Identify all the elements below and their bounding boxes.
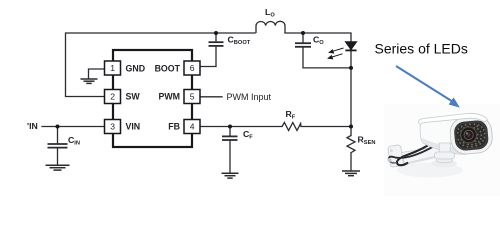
pin 1 box: [105, 61, 121, 75]
annotation blue arrow: [396, 66, 459, 107]
wire Rf right lead: [301, 126, 351, 128]
camera body shading: [422, 138, 465, 154]
wire VIN input: [42, 126, 105, 128]
svg-text:'IN: 'IN: [27, 121, 38, 131]
svg-text:6: 6: [190, 63, 195, 73]
svg-text:FB: FB: [168, 122, 180, 132]
wire Cin branch: [57, 127, 59, 144]
wire Co tap from rail: [302, 33, 304, 43]
pin 5 box: [184, 90, 200, 104]
ground at Cf: [222, 173, 239, 178]
wire inductor right to LED corner: [285, 33, 351, 42]
pin 6 box: [184, 61, 200, 75]
node Cf junction: [228, 125, 232, 129]
node Rsen junction: [349, 125, 353, 129]
ground at Rsen: [342, 171, 360, 176]
camera base: [435, 152, 455, 159]
wire FB pin to Rf: [200, 126, 282, 128]
camera arm: [402, 147, 442, 164]
wire BOOT pin to Cboot: [200, 46, 216, 66]
wire Rsen bottom to ground: [350, 153, 352, 171]
svg-text:BOOT: BOOT: [155, 63, 181, 73]
wire Cf branch: [229, 127, 231, 137]
wire Rsen top lead: [350, 127, 352, 136]
svg-text:4: 4: [190, 122, 195, 132]
svg-text:Series of LEDs: Series of LEDs: [375, 41, 468, 57]
pin 4 box: [184, 120, 200, 134]
LED D1: [345, 42, 356, 51]
camera front dark face: [453, 120, 489, 152]
svg-text:5: 5: [190, 92, 195, 102]
svg-text:PWM: PWM: [159, 92, 181, 102]
camera cable: [397, 140, 437, 166]
LED arrow 1: [329, 48, 343, 53]
camera lens: [460, 126, 477, 143]
wire Co bottom to LED cathode rail: [303, 47, 351, 68]
ground at Cin: [46, 165, 70, 170]
capacitor Cboot: [209, 42, 224, 46]
pin 3 box: [105, 120, 121, 134]
node LED cathode junction: [349, 66, 353, 70]
svg-text:GND: GND: [126, 63, 146, 73]
wire PWM input stub: [200, 96, 222, 98]
svg-text:SW: SW: [126, 92, 141, 102]
camera hood: [418, 113, 487, 124]
svg-text:2: 2: [110, 92, 115, 102]
capacitor Cin: [48, 144, 68, 148]
wire Cboot top to rail: [215, 33, 217, 42]
svg-text:VIN: VIN: [126, 122, 141, 132]
wire LED cathode down to Rsen node: [350, 51, 352, 127]
node Cin junction: [56, 125, 60, 129]
camera IR LEDs: [456, 122, 487, 149]
ground at pin 1: [81, 79, 98, 83]
capacitor Cf: [222, 136, 238, 140]
camera body: [420, 118, 470, 155]
wire GND pin to ground: [89, 69, 105, 79]
camera wall plate: [388, 145, 404, 168]
pin 2 box: [105, 90, 121, 104]
svg-text:1: 1: [110, 63, 115, 73]
node Co junction: [301, 31, 305, 35]
camera front rim: [449, 115, 494, 155]
inductor Lo: [256, 21, 285, 33]
svg-text:PWM Input: PWM Input: [227, 92, 272, 102]
wire Cin bottom to ground: [57, 148, 59, 165]
wire Cf bottom to ground: [229, 140, 231, 172]
camera photo: [384, 104, 500, 196]
LED arrow 2: [328, 54, 342, 59]
camera stem: [439, 143, 451, 153]
capacitor Co: [295, 43, 311, 47]
IC U1 body: [113, 50, 192, 147]
resistor Rsen: [347, 136, 355, 153]
wire top rail from SW loop to inductor: [66, 33, 256, 97]
node Cboot junction: [214, 31, 218, 35]
svg-text:3: 3: [110, 122, 115, 132]
resistor Rf: [282, 123, 301, 131]
